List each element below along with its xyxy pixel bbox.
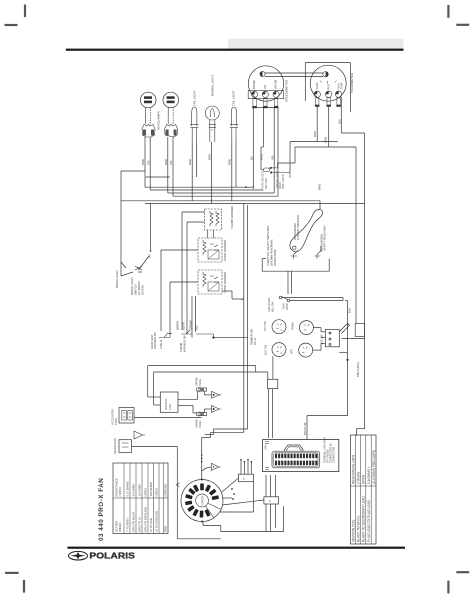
svg-text:Y TO BRN: Y TO BRN	[126, 519, 130, 533]
svg-text:BRN: BRN	[164, 159, 168, 165]
svg-text:PRIME: PRIME	[292, 322, 295, 330]
svg-text:5W FUSE: 5W FUSE	[265, 178, 268, 189]
svg-text:DK: DK	[250, 156, 254, 160]
svg-text:03 440 PRO-X FAN: 03 440 PRO-X FAN	[98, 478, 105, 541]
svg-text:PLUG: PLUG	[198, 421, 202, 428]
svg-text:POLARIS: POLARIS	[89, 551, 135, 560]
svg-text:GRN TO W: GRN TO W	[138, 517, 142, 532]
svg-text:TAIL LIGHT: TAIL LIGHT	[192, 90, 196, 106]
svg-text:REV: REV	[327, 84, 330, 89]
svg-text:W TO GROUND: W TO GROUND	[155, 511, 159, 532]
svg-text:DK: DK	[147, 254, 151, 258]
svg-text:OPEN: OPEN	[155, 488, 159, 496]
svg-text:PLUG LEAD TO PLUG LEAD: PLUG LEAD TO PLUG LEAD	[367, 499, 371, 542]
svg-text:W TO W/R: W TO W/R	[149, 518, 153, 532]
svg-text:BRN: BRN	[141, 159, 145, 165]
svg-text:0.16 OHMS: 0.16 OHMS	[126, 481, 130, 496]
svg-text:BRN: BRN	[163, 526, 167, 532]
svg-text:GRN TO BLK/R: GRN TO BLK/R	[132, 512, 136, 532]
svg-text:PLUG: PLUG	[114, 418, 118, 425]
svg-text:BRAKE: BRAKE	[252, 80, 256, 89]
svg-text:P/BLK (BLK): P/BLK (BLK)	[356, 362, 360, 377]
svg-text:BLK: BLK	[195, 325, 199, 330]
svg-text:COIL: COIL	[168, 403, 172, 410]
svg-text:HAND WARMER: HAND WARMER	[223, 240, 227, 261]
svg-text:185 OHMS: 185 OHMS	[149, 482, 153, 496]
svg-text:TEMP: TEMP	[340, 82, 343, 89]
svg-text:KEY SW: KEY SW	[264, 321, 267, 331]
svg-text:Y/R: Y/R	[146, 160, 150, 165]
svg-text:CONNECTOR: CONNECTOR	[333, 447, 336, 463]
svg-text:HI LO: HI LO	[253, 338, 257, 345]
svg-text:BLK: BLK	[338, 119, 342, 124]
svg-text:(AT BRAKE: (AT BRAKE	[137, 281, 141, 295]
svg-text:KILL SW: KILL SW	[270, 301, 274, 312]
svg-text:SPARK: SPARK	[195, 419, 199, 428]
svg-text:SAFETY RELEASED: SAFETY RELEASED	[323, 225, 327, 251]
svg-text:STOP: STOP	[285, 303, 289, 310]
svg-text:SWITCH: SWITCH	[134, 284, 138, 295]
svg-text:BLK: BLK	[347, 308, 351, 313]
svg-text:THROTTLE SAFETY SWITCHES: THROTTLE SAFETY SWITCHES	[266, 226, 270, 266]
svg-text:P/LB: P/LB	[260, 154, 264, 160]
svg-text:THUMB WARMER: THUMB WARMER	[230, 206, 234, 229]
svg-text:BLACK TO WH/YL: BLACK TO WH/YL	[356, 515, 360, 542]
svg-text:F: F	[240, 298, 244, 300]
svg-text:IGNITION: IGNITION	[164, 398, 168, 410]
svg-text:13 OHMS: 13 OHMS	[132, 484, 136, 497]
svg-text:WARMER SW: WARMER SW	[153, 332, 157, 349]
svg-text:OPEN: OPEN	[144, 488, 148, 496]
svg-text:BRAKE LIGHT: BRAKE LIGHT	[130, 277, 134, 295]
svg-text:(SHOWN IN NORMAL: (SHOWN IN NORMAL	[270, 239, 274, 266]
svg-text:HEADLAMPS: HEADLAMPS	[157, 111, 161, 130]
svg-text:SPARK: SPARK	[195, 377, 199, 386]
svg-text:(0.4 OHMS FOR CAPS): (0.4 OHMS FOR CAPS)	[372, 450, 376, 484]
svg-text:Y/R: Y/R	[169, 160, 173, 165]
svg-text:Y/R: Y/R	[270, 155, 274, 160]
svg-text:PLUG: PLUG	[198, 379, 202, 386]
svg-text:13 OHMS: 13 OHMS	[138, 484, 142, 497]
svg-text:RUN: RUN	[282, 303, 286, 309]
svg-text:IGN SW: IGN SW	[320, 334, 324, 344]
svg-text:OPEN: OPEN	[362, 474, 366, 484]
svg-text:FLIPPER PRESSED: FLIPPER PRESSED	[296, 215, 300, 240]
svg-text:THUMB: THUMB	[179, 343, 183, 352]
svg-text:GRN: GRN	[324, 137, 328, 143]
svg-text:BLACK TO SECONDARY LEAD: BLACK TO SECONDARY LEAD	[362, 495, 366, 542]
svg-text:5-8 OHMS +: 5-8 OHMS +	[367, 466, 371, 484]
svg-text:(±20%): (±20%)	[118, 487, 122, 496]
svg-text:BRT: BRT	[291, 349, 294, 354]
svg-text:BLK/YL W: BLK/YL W	[303, 422, 307, 435]
svg-text:BRN: BRN	[313, 131, 317, 137]
svg-text:HAND WARMER: HAND WARMER	[223, 272, 227, 293]
svg-text:LOW HI: LOW HI	[159, 339, 163, 349]
svg-text:W/BRN: W/BRN	[176, 321, 180, 330]
svg-text:GRN/BT: GRN/BT	[189, 319, 193, 330]
svg-text:TEMP: TEMP	[316, 82, 319, 89]
svg-text:BRN: BRN	[208, 154, 212, 160]
svg-text:GROUND: GROUND	[163, 484, 167, 497]
svg-text:IGNITION COIL: IGNITION COIL	[352, 519, 356, 542]
svg-text:STATOR: STATOR	[202, 495, 205, 505]
svg-text:TAIL LIGHT: TAIL LIGHT	[231, 90, 235, 106]
svg-text:BRN: BRN	[318, 184, 322, 190]
svg-text:OPERATION): OPERATION)	[273, 249, 277, 266]
svg-text:ACC SW: ACC SW	[265, 344, 268, 355]
svg-text:DIMMER SW: DIMMER SW	[250, 329, 254, 345]
svg-text:REGULATOR: REGULATOR	[113, 438, 117, 454]
svg-text:ACCESSORY: ACCESSORY	[111, 408, 115, 425]
svg-text:GRN TO GROUND: GRN TO GROUND	[144, 507, 148, 532]
svg-text:BRN: BRN	[188, 159, 192, 165]
svg-text:WARMER SW: WARMER SW	[183, 335, 187, 352]
svg-text:HI/LOW: HI/LOW	[274, 79, 278, 89]
svg-text:SPEEDOMETER: SPEEDOMETER	[285, 80, 289, 102]
svg-text:OIL: OIL	[263, 84, 267, 89]
svg-text:b: b	[243, 477, 245, 481]
svg-text:BLK/R: BLK/R	[182, 322, 186, 330]
svg-text:(TAIL LIGHT): (TAIL LIGHT)	[282, 174, 285, 189]
svg-text:RESISTANCE ±20%: RESISTANCE ±20%	[352, 455, 356, 484]
svg-text:WIRES: WIRES	[118, 522, 122, 532]
svg-text:GRN: GRN	[265, 444, 268, 450]
svg-text:BRN: BRN	[228, 159, 232, 165]
svg-text:BARREL LIGHT: BARREL LIGHT	[211, 74, 215, 96]
svg-text:BRAKE LIGHT: BRAKE LIGHT	[115, 270, 119, 288]
svg-text:TACHOMETER: TACHOMETER	[350, 73, 354, 93]
svg-text:LEVER): LEVER)	[141, 285, 145, 295]
svg-text:2 OHMS: 2 OHMS	[356, 472, 360, 484]
svg-text:b: b	[269, 499, 271, 503]
